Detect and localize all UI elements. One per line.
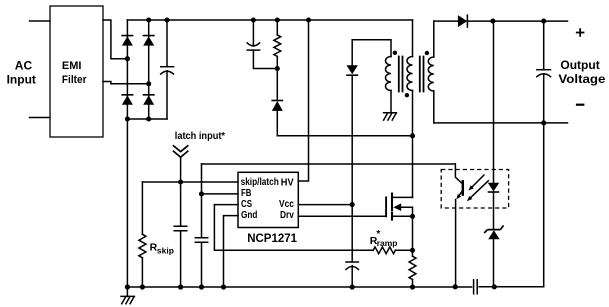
svg-text:HV: HV [281,178,294,189]
svg-text:Gnd: Gnd [241,210,257,221]
svg-text:CS: CS [241,199,252,210]
svg-text:FB: FB [241,188,251,199]
svg-text:Voltage: Voltage [558,72,605,86]
svg-text:latch input*: latch input* [175,131,225,142]
svg-text:Output: Output [560,58,599,72]
svg-text:skip/latch: skip/latch [241,177,279,188]
svg-text:Drv: Drv [280,210,294,221]
svg-text:skip: skip [157,246,174,256]
svg-text:EMI: EMI [62,60,82,72]
svg-text:Vcc: Vcc [279,199,294,210]
svg-text:*: * [376,229,380,240]
svg-text:NCP1271: NCP1271 [247,233,297,245]
svg-text:Filter: Filter [62,74,87,86]
svg-text:Input: Input [7,72,36,86]
svg-text:AC: AC [15,58,33,72]
